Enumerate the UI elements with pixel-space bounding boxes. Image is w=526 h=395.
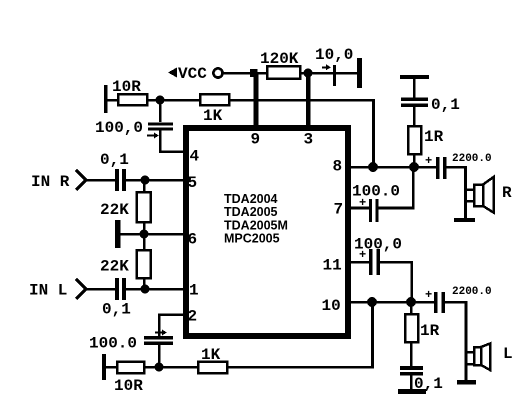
svg-text:MPC2005: MPC2005	[224, 232, 280, 246]
svg-text:10R: 10R	[112, 78, 141, 96]
svg-text:4: 4	[190, 148, 200, 166]
svg-text:2200.0: 2200.0	[452, 153, 492, 165]
svg-text:1: 1	[189, 282, 199, 300]
svg-text:1R: 1R	[424, 128, 444, 146]
svg-text:IN L: IN L	[29, 282, 67, 300]
wire C2200 to speaker L	[445, 301, 468, 381]
ground bar bottom-right	[398, 389, 426, 394]
speaker R	[467, 177, 512, 213]
resistor 10R (bottom)	[114, 362, 144, 395]
capacitor 0,1 (top-right)	[401, 96, 460, 114]
node junction 10R/1K/C100 bottom	[155, 363, 164, 372]
wire node to C10	[312, 72, 333, 75]
node pin1 junction	[141, 285, 150, 294]
wire node D down to 1R	[410, 302, 413, 314]
speaker L	[468, 344, 513, 371]
svg-text:0,1: 0,1	[102, 301, 131, 319]
resistor 1R (top)	[408, 126, 444, 154]
svg-text:IN R: IN R	[31, 173, 70, 191]
svg-text:L: L	[503, 345, 513, 363]
node C pin10/feedback	[367, 297, 377, 307]
resistor 120K	[260, 50, 300, 79]
svg-text:8: 8	[333, 158, 343, 176]
capacitor 100,0 (pin11)	[354, 236, 402, 276]
svg-text:9: 9	[251, 131, 261, 149]
svg-text:1K: 1K	[201, 346, 221, 364]
capacitor 0,1 (bottom-right)	[400, 366, 443, 393]
resistor 22K (lower)	[100, 250, 151, 278]
svg-text:0,1: 0,1	[431, 96, 460, 114]
node pin6 junction	[140, 230, 149, 239]
wire 22K to node pin1	[143, 278, 146, 289]
svg-text:3: 3	[304, 131, 314, 149]
capacitor 100,0 (top-left)	[95, 119, 173, 139]
wire 10R to node	[147, 99, 160, 102]
resistor 22K (upper)	[100, 192, 151, 222]
svg-text:22K: 22K	[100, 201, 129, 219]
ground bar speaker R	[454, 218, 475, 222]
node pin5 junction	[141, 176, 150, 185]
ground bar top-right	[400, 75, 429, 79]
node A pin8/feedback	[368, 162, 378, 172]
wire C to node pin1	[126, 288, 141, 291]
node B pin8/1R	[409, 162, 419, 172]
ground bar top-left	[104, 85, 108, 113]
input IN R connector	[31, 170, 86, 191]
svg-text:10,0: 10,0	[315, 46, 353, 64]
wire feedback top horizontal	[229, 99, 375, 102]
wire 120K to node	[300, 72, 308, 75]
svg-text:+: +	[425, 154, 432, 168]
wire INR to C0,1	[86, 179, 115, 182]
VCC terminal circle	[213, 68, 222, 77]
capacitor 2200.0 (bottom)	[425, 286, 492, 313]
wire C to node pin5	[126, 179, 141, 182]
svg-text:TDA2004: TDA2004	[224, 192, 278, 206]
capacitor 0,1 (IN L)	[102, 278, 131, 319]
node junction 10R/1K/C100	[156, 96, 165, 105]
wire node to pin6	[144, 233, 186, 236]
capacitor 2200.0 (top)	[425, 153, 492, 179]
resistor 10R (top)	[112, 78, 147, 105]
wire node down to C100	[159, 100, 162, 122]
svg-text:7: 7	[334, 201, 344, 219]
svg-text:0,1: 0,1	[100, 151, 129, 169]
wire node down to 22K lower	[143, 234, 146, 250]
pin 8 label	[333, 158, 343, 176]
wire C2200 to speaker R	[446, 166, 467, 219]
wire node to 120K	[257, 72, 267, 75]
wire node to 1K bottom	[159, 366, 198, 369]
pin 4 label	[190, 148, 200, 166]
pin 10 label	[322, 297, 341, 315]
svg-text:120K: 120K	[260, 50, 299, 68]
wire C100 to node D	[380, 261, 413, 302]
pin 11 label	[323, 257, 342, 275]
wire pin11 output	[348, 261, 369, 264]
wire pin10 output	[348, 301, 434, 304]
wire node down to 22K	[143, 180, 146, 192]
pin 9 label	[251, 131, 261, 149]
wire C to ground	[413, 79, 416, 98]
wire INL to C0,1	[86, 288, 115, 291]
svg-text:1R: 1R	[420, 322, 440, 340]
wire feedback bottom horizontal	[227, 366, 374, 369]
wire 10R to node	[144, 366, 155, 369]
svg-text:100,0: 100,0	[95, 119, 143, 137]
wire node B down to C100	[379, 167, 415, 209]
wire 22K to node pin6	[143, 222, 146, 234]
svg-text:11: 11	[323, 257, 342, 275]
wire feedback top vertical	[372, 100, 375, 168]
wire C100 to pin4	[159, 131, 184, 154]
wire pin8 output	[348, 166, 436, 169]
pin 3 label	[304, 131, 314, 149]
capacitor 0,1 (IN R)	[100, 151, 129, 191]
wire feedback bottom vertical	[371, 302, 374, 367]
wire node B up to 1R	[413, 154, 416, 167]
wire C to node	[158, 345, 161, 367]
ground bar for C10	[336, 58, 362, 88]
wire 1R to C0,1	[410, 342, 413, 366]
svg-text:2: 2	[188, 308, 198, 326]
wire node to 1K	[160, 99, 200, 102]
pin 2 label	[188, 308, 198, 326]
svg-text:6: 6	[188, 231, 198, 249]
svg-text:VCC: VCC	[178, 65, 207, 83]
wire ground to R 10R top	[107, 99, 118, 102]
wire node to pin1	[145, 288, 186, 291]
svg-text:R: R	[502, 184, 512, 202]
node D pin10/1R	[406, 297, 416, 307]
+VCC label	[168, 65, 207, 83]
svg-text:TDA2005: TDA2005	[224, 205, 278, 219]
capacitor 100.0 (bottom-left)	[89, 330, 173, 353]
wire pin3 vertical	[306, 77, 311, 125]
wire C to ground	[410, 375, 413, 389]
ground bar bottom-left	[102, 354, 117, 380]
svg-text:100.0: 100.0	[89, 335, 137, 353]
svg-text:10: 10	[322, 297, 341, 315]
pin 6 label	[188, 231, 198, 249]
svg-text:2200.0: 2200.0	[452, 286, 492, 298]
wire node to pin5	[145, 179, 186, 182]
resistor 1K (bottom)	[198, 346, 227, 373]
wire 1R to C0,1	[413, 107, 416, 126]
svg-text:1K: 1K	[203, 107, 223, 125]
capacitor 10,0	[315, 46, 353, 86]
svg-text:10R: 10R	[114, 377, 143, 395]
ground bar mid-left	[115, 220, 140, 248]
svg-text:+: +	[425, 288, 432, 302]
input IN L connector	[29, 279, 86, 300]
pin 7 label	[334, 201, 344, 219]
wire pin9 vertical	[254, 73, 259, 125]
pin 1 label	[189, 282, 199, 300]
resistor 1R (bottom)	[405, 314, 440, 342]
ground bar speaker L	[457, 380, 476, 385]
pin 5 label	[188, 174, 198, 192]
IC U1 TDA2004 body	[186, 128, 348, 336]
node VCC junction	[250, 69, 258, 77]
wire C100 to pin7	[348, 207, 369, 210]
resistor 1K (top)	[200, 94, 229, 125]
wire VCC circle to node	[223, 72, 251, 75]
capacitor 100.0 (pin7)	[352, 183, 400, 223]
svg-text:22K: 22K	[100, 258, 129, 276]
svg-text:5: 5	[188, 174, 198, 192]
wire pin2 left and down	[158, 313, 186, 336]
node 120K/C10 junction	[304, 69, 313, 78]
svg-text:TDA2005M: TDA2005M	[224, 219, 288, 233]
svg-text:+: +	[359, 248, 366, 262]
